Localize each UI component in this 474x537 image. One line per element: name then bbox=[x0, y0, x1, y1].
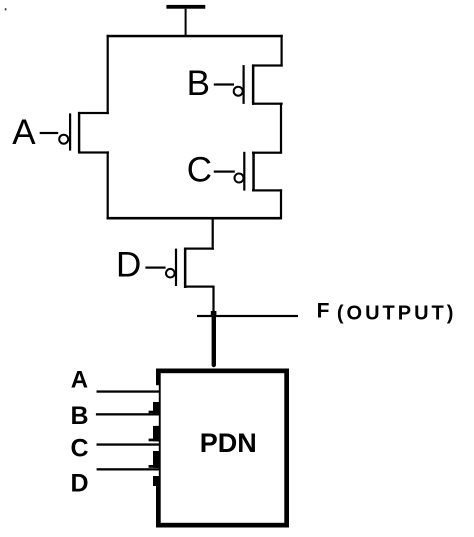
svg-text:C: C bbox=[71, 435, 89, 463]
svg-text:F: F bbox=[317, 299, 330, 322]
wire output F horizontal bbox=[197, 315, 298, 317]
label D (gate of Q_D) bbox=[116, 246, 141, 285]
svg-text:D: D bbox=[71, 470, 89, 498]
label B (PDN input) bbox=[71, 402, 89, 430]
svg-text:B: B bbox=[71, 402, 89, 430]
label F bbox=[317, 299, 330, 322]
wire PDN input B bbox=[96, 413, 159, 415]
speck artifact top-left bbox=[5, 8, 7, 10]
wire PUN internal node rail bbox=[107, 217, 282, 220]
wire B-C series connector bbox=[280, 103, 282, 153]
wire B branch upper (VDD rail to Q_B source) bbox=[281, 35, 283, 67]
transistor Q_A (PMOS, input A) bbox=[59, 112, 109, 154]
svg-text:D: D bbox=[116, 246, 141, 285]
block PDN box bbox=[149, 371, 287, 525]
svg-text:PDN: PDN bbox=[200, 428, 257, 458]
wire gate D bbox=[145, 267, 165, 269]
wire left rail lower (Q_A drain to internal node) bbox=[107, 151, 109, 219]
wire gate C bbox=[214, 171, 235, 173]
wire top rail (VDD node) bbox=[107, 35, 283, 38]
wire thick F to PDN bbox=[212, 314, 216, 366]
wire VDD stub bbox=[185, 9, 187, 37]
svg-text:A: A bbox=[12, 113, 36, 152]
label (OUTPUT) bbox=[337, 302, 457, 324]
wire PDN input C bbox=[97, 443, 160, 445]
svg-text:A: A bbox=[71, 367, 88, 394]
wire C branch lower (Q_C drain to internal node) bbox=[280, 189, 282, 219]
wire Q_D drain to node F bbox=[212, 286, 214, 314]
transistor Q_C (PMOS, input C) bbox=[235, 152, 283, 192]
wire left rail upper (VDD to Q_A source) bbox=[107, 35, 109, 114]
label D (PDN input) bbox=[71, 470, 89, 498]
label A (PDN input) bbox=[71, 367, 88, 394]
wire PDN input A bbox=[97, 390, 160, 392]
svg-text:(OUTPUT): (OUTPUT) bbox=[337, 302, 457, 324]
wire gate A bbox=[40, 132, 59, 134]
label B (gate of Q_B) bbox=[187, 64, 210, 103]
label C (gate of Q_C) bbox=[187, 151, 212, 190]
node F junction bbox=[211, 311, 217, 317]
label C (PDN input) bbox=[71, 435, 89, 463]
label A (gate of Q_A) bbox=[12, 113, 36, 152]
wire PDN input D bbox=[97, 468, 159, 470]
transistor Q_D (PMOS, input D) bbox=[166, 248, 214, 289]
transistor Q_B (PMOS, input B) bbox=[234, 64, 283, 104]
wire mid stem (internal node to Q_D source) bbox=[212, 219, 214, 250]
label PDN bbox=[200, 428, 257, 458]
svg-text:B: B bbox=[187, 64, 210, 103]
wire gate B bbox=[214, 83, 234, 85]
power supply VDD bar bbox=[166, 5, 205, 9]
svg-text:C: C bbox=[187, 151, 212, 190]
